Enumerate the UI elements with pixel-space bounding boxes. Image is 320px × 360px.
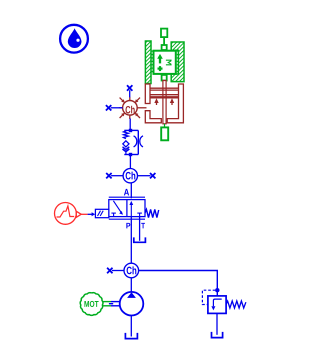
tank T2	[212, 332, 223, 338]
node X above gauge Ch1	[127, 85, 132, 90]
slide contact dotted lines	[151, 51, 153, 75]
wire gauge Ch3 to pump	[130, 278, 132, 292]
wire X to gauge Ch1 left	[111, 107, 123, 109]
wire X to gauge Ch3 left	[112, 270, 124, 272]
check valve spring	[124, 130, 129, 138]
bottom rail	[124, 154, 138, 156]
wire gauge Ch3 to relief valve branch	[139, 271, 218, 296]
guide rail left (hatched)	[145, 41, 151, 84]
port label P	[126, 223, 130, 229]
proportional solenoid box	[95, 209, 108, 217]
port label T	[141, 223, 145, 229]
right position: P to A arrow	[130, 204, 132, 217]
connector stem	[163, 37, 165, 45]
signal generator G1 (red)	[55, 203, 88, 225]
node X left of gauge Ch2	[106, 173, 111, 178]
piston rod (double line through cylinder)	[163, 81, 166, 124]
up arrow inside mass	[159, 58, 161, 64]
position sensor block (green)	[164, 124, 166, 128]
throttle branch	[137, 130, 139, 154]
wire gauge Ch2 to valve port A	[130, 183, 132, 198]
check valve poppet chevrons	[123, 147, 130, 150]
top connector rect	[161, 29, 167, 37]
junction dot bottom	[129, 153, 132, 156]
directional valve V1 (3/2 proportional)	[95, 197, 158, 219]
left position: A to T path	[113, 201, 121, 212]
junction node on relief branch	[215, 288, 219, 292]
tank T1	[134, 237, 146, 242]
small coupling square	[162, 45, 167, 50]
rotated M glyph	[166, 60, 172, 65]
return spring	[145, 209, 159, 217]
plus sign inside mass	[158, 67, 163, 69]
arrow NW	[120, 98, 123, 101]
wire gauge Ch2 to X right	[138, 175, 151, 177]
arrow SE	[137, 115, 140, 118]
chamber arrow right	[171, 102, 173, 105]
junction dot top	[129, 129, 132, 132]
arrow SW	[120, 115, 123, 118]
top rail	[124, 129, 138, 131]
wire valve P down to gauge Ch3	[130, 217, 132, 264]
wire X to gauge Ch1 top	[129, 90, 131, 97]
shaft pump side (blue)	[109, 302, 120, 306]
wire relief valve to tank	[216, 313, 218, 334]
shaft motor side (green)	[102, 302, 111, 306]
wire valve T to tank	[139, 217, 141, 241]
gauge Ch2 (blue)	[123, 169, 137, 183]
relief spring	[226, 301, 246, 308]
wire X to gauge Ch2 left	[111, 175, 123, 177]
pump P1	[120, 292, 144, 316]
wire pump to tank	[130, 316, 132, 337]
mass body box	[154, 51, 176, 74]
gauge stubs (maroon)	[129, 97, 131, 101]
cylinder left wall upper	[145, 84, 150, 104]
check valve seat diamond	[123, 141, 129, 147]
piston (horizontal seal lines)	[150, 87, 179, 89]
node X right of gauge Ch2	[150, 173, 155, 178]
flow control valve FC1 (check valve + throttle in parallel)	[123, 129, 144, 156]
chamber arrow left	[156, 102, 158, 105]
wire flow control to gauge Ch2	[129, 155, 131, 169]
node X left of gauge Ch1	[106, 105, 111, 110]
motor M (green scalloped)	[80, 293, 103, 316]
right position: blocked T	[137, 212, 142, 214]
gauge Ch3 (blue)	[124, 263, 139, 278]
guide rail right (hatched C-bracket)	[171, 42, 184, 82]
load mass M1 assembly (green)	[145, 29, 184, 84]
port label A	[124, 189, 129, 196]
node X left of gauge Ch3	[107, 268, 112, 273]
signal wire arrow to solenoid	[88, 213, 92, 215]
relief valve RV1	[208, 296, 246, 314]
wire gauge Ch1 to flow control	[129, 119, 131, 131]
cylinder C1 (maroon)	[119, 81, 184, 124]
arrow NE	[137, 98, 140, 101]
lower coupling square	[162, 75, 167, 81]
oil drop indicator icon	[60, 25, 88, 53]
gauge Ch1 (maroon) with selection arrows	[120, 98, 140, 118]
left position: blocked P	[111, 212, 116, 214]
cylinder right L-wall	[167, 84, 183, 123]
port line from gauge to cylinder	[137, 107, 146, 109]
tank T3	[125, 333, 137, 339]
cylinder left lower L-bracket	[145, 111, 161, 123]
pilot line (dashed)	[202, 290, 215, 304]
